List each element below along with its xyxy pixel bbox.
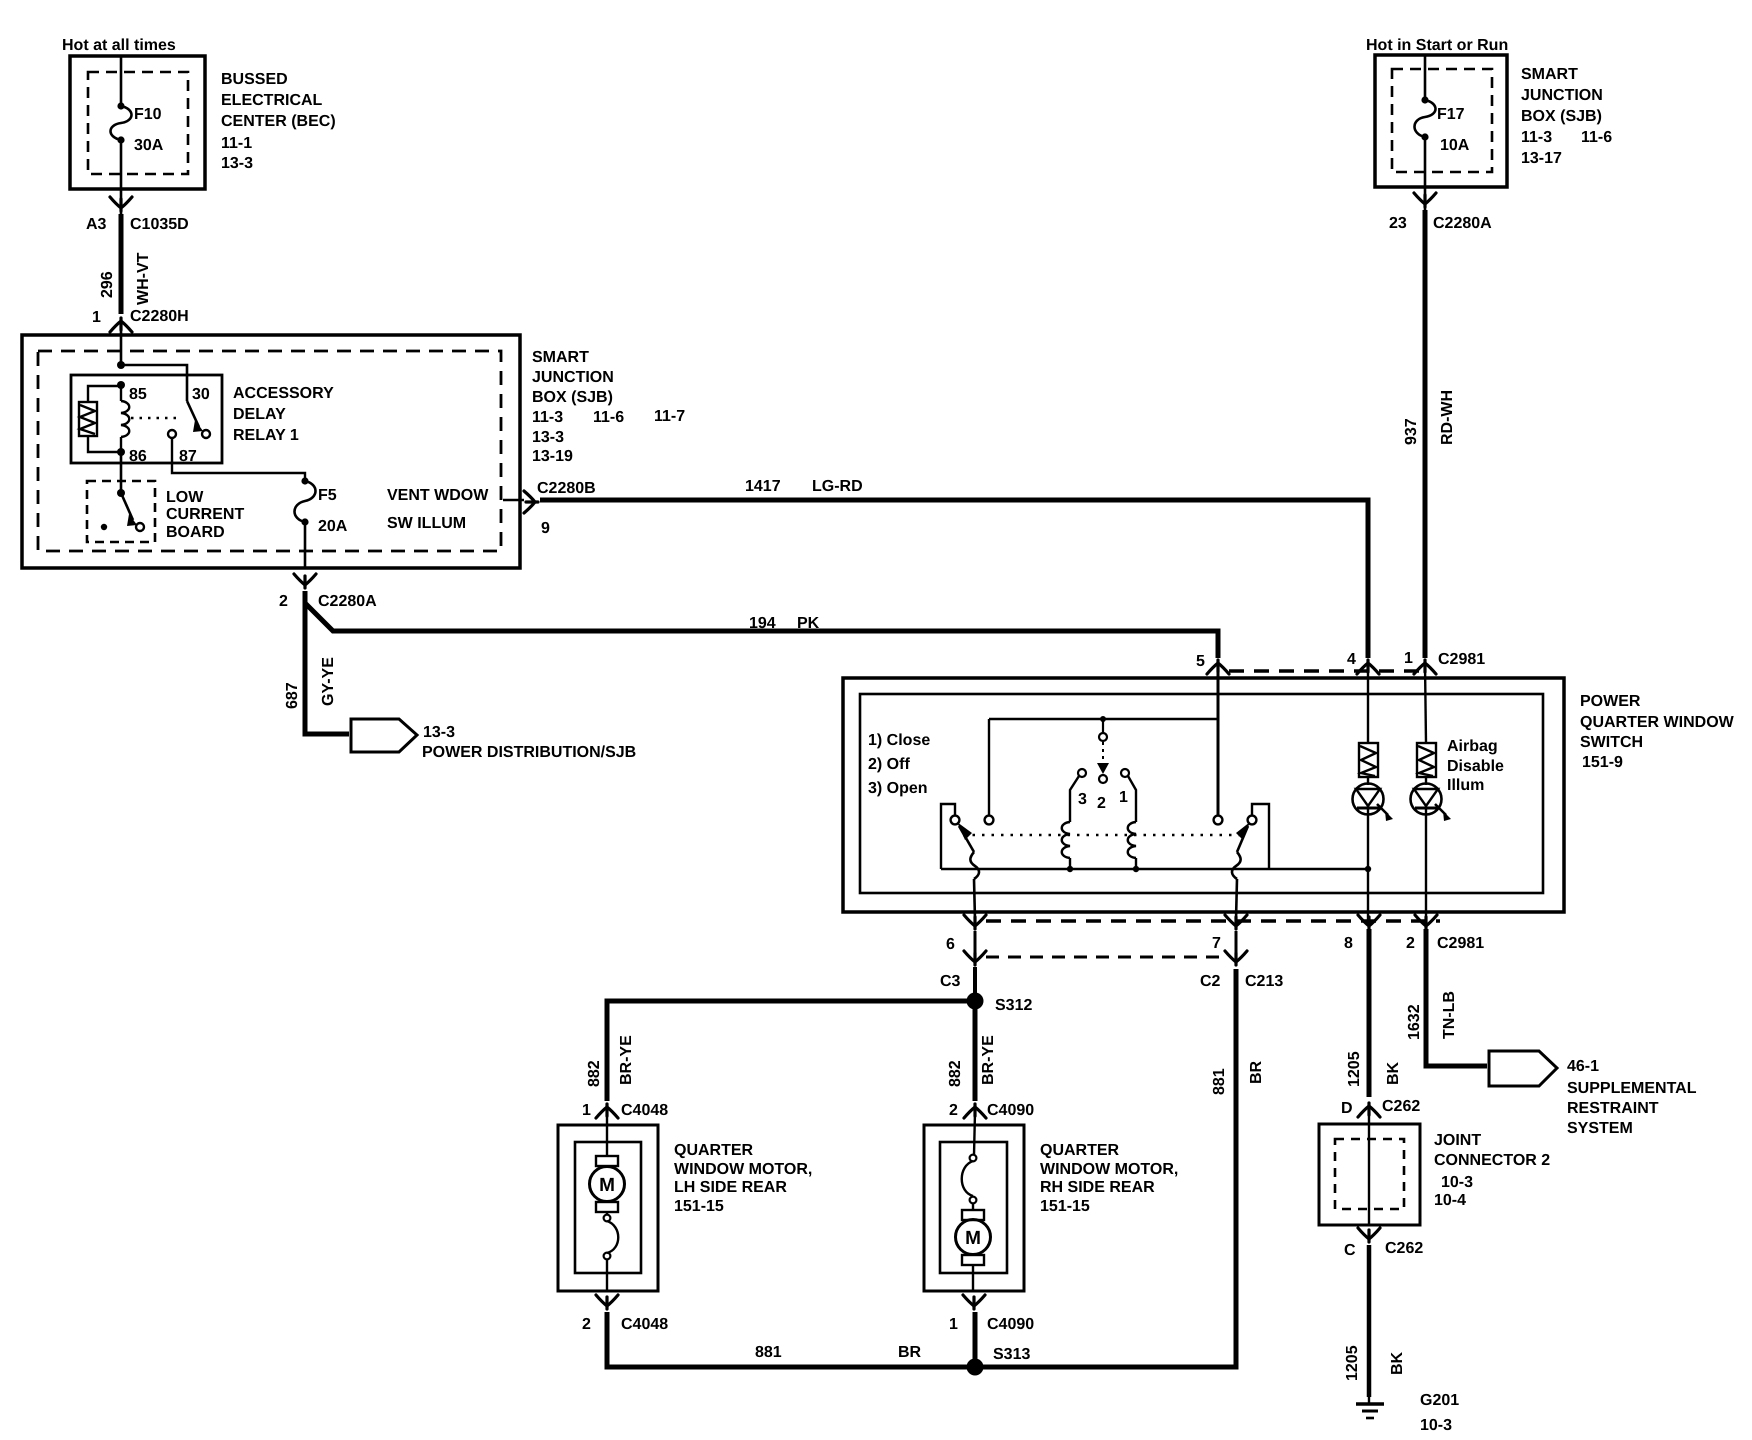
fuse F10 30A bbox=[111, 106, 132, 140]
switch common rail bbox=[941, 868, 1368, 871]
connector C2981 pin 5 bbox=[1207, 660, 1229, 674]
svg-text:C2280A: C2280A bbox=[1433, 215, 1492, 232]
svg-text:3: 3 bbox=[1078, 791, 1087, 808]
low current board (dashed) bbox=[87, 481, 155, 542]
svg-text:RH SIDE REAR: RH SIDE REAR bbox=[1040, 1179, 1155, 1196]
svg-text:2: 2 bbox=[1406, 935, 1415, 952]
wire 882 BR-YE (right) bbox=[973, 1001, 978, 1101]
node: pin 85 bbox=[117, 381, 125, 389]
svg-text:SMART: SMART bbox=[532, 349, 589, 366]
svg-text:882: 882 bbox=[586, 1060, 603, 1087]
svg-text:1: 1 bbox=[92, 309, 101, 326]
svg-text:JOINT: JOINT bbox=[1434, 1132, 1481, 1149]
svg-text:F10: F10 bbox=[134, 106, 162, 123]
connector C2280H pin 1 bbox=[110, 318, 132, 332]
node: coil-rail junctions bbox=[1067, 866, 1073, 872]
fuse box: Smart Junction Box (SJB) right bbox=[1375, 55, 1507, 187]
svg-text:QUARTER: QUARTER bbox=[674, 1142, 754, 1159]
right rocker blade bbox=[1237, 826, 1248, 852]
relay coil 85-86 bbox=[121, 385, 129, 452]
wire: C3 to splice S312 bbox=[973, 967, 977, 1001]
svg-text:SUPPLEMENTAL: SUPPLEMENTAL bbox=[1567, 1080, 1697, 1097]
svg-text:F5: F5 bbox=[318, 487, 337, 504]
svg-text:1) Close: 1) Close bbox=[868, 732, 930, 749]
label: QUARTER WINDOW MOTOR, LH SIDE REAR 151-15 bbox=[674, 1142, 812, 1215]
wire: pin 6 between connectors bbox=[974, 931, 977, 955]
connector C4090 pin 1 bbox=[963, 1295, 985, 1309]
svg-text:RD-WH: RD-WH bbox=[1439, 390, 1456, 445]
wire: C4090 to S313 bbox=[973, 1312, 978, 1367]
svg-text:11-1: 11-1 bbox=[221, 135, 252, 152]
svg-text:D: D bbox=[1341, 1100, 1353, 1117]
svg-text:13-3: 13-3 bbox=[221, 155, 253, 172]
svg-text:9: 9 bbox=[541, 520, 550, 537]
svg-text:2) Off: 2) Off bbox=[868, 756, 910, 773]
wire: fuse to box bottom bbox=[120, 140, 123, 189]
svg-text:S312: S312 bbox=[995, 997, 1032, 1014]
relay contact blade 30 bbox=[187, 401, 199, 427]
svg-text:ACCESSORY: ACCESSORY bbox=[233, 385, 334, 402]
svg-text:C4090: C4090 bbox=[987, 1102, 1034, 1119]
wire: lamp 1 to pin 8 bbox=[1367, 808, 1369, 920]
connector C2981 top (dashed) bbox=[1229, 669, 1419, 672]
svg-text:QUARTER WINDOW: QUARTER WINDOW bbox=[1580, 714, 1735, 731]
off-page connector 46-1 SUPPLEMENTAL RESTRAINT SYSTEM bbox=[1489, 1051, 1557, 1086]
svg-text:20A: 20A bbox=[318, 518, 348, 535]
label: POWER QUARTER WINDOW SWITCH 151-9 bbox=[1580, 693, 1735, 771]
connector C4090 pin 2 bbox=[964, 1104, 986, 1118]
node: center stub junction bbox=[1100, 716, 1106, 722]
wire: BEC internal feed bbox=[120, 56, 123, 106]
svg-text:BK: BK bbox=[1389, 1351, 1406, 1375]
svg-text:882: 882 bbox=[947, 1060, 964, 1087]
ground G201 bbox=[1356, 1397, 1384, 1418]
box: Smart Junction Box (SJB) bbox=[22, 335, 520, 568]
motor: Quarter Window Motor RH Side Rear bbox=[924, 1125, 1024, 1291]
svg-text:C2280A: C2280A bbox=[318, 593, 377, 610]
svg-text:5: 5 bbox=[1196, 653, 1205, 670]
wire 1205 BK (upper) bbox=[1367, 929, 1372, 1097]
svg-text:2: 2 bbox=[1097, 795, 1106, 812]
connector C2981 pin 2 bbox=[1415, 915, 1437, 929]
switch internal top wire bbox=[989, 718, 1218, 720]
connector C2280B pin 9 bbox=[503, 499, 524, 501]
svg-text:WINDOW MOTOR,: WINDOW MOTOR, bbox=[1040, 1161, 1178, 1178]
wire 881 BR (bottom) bbox=[607, 969, 1236, 1367]
splice S313 bbox=[967, 1359, 984, 1376]
off-page connector 13-3 POWER DISTRIBUTION/SJB bbox=[351, 719, 417, 752]
svg-text:1: 1 bbox=[1404, 650, 1413, 667]
connector C262 pin C bbox=[1358, 1228, 1380, 1242]
wire 194 PK bbox=[305, 603, 1218, 658]
svg-text:C262: C262 bbox=[1382, 1098, 1420, 1115]
rocker linkage (dotted) bbox=[963, 834, 1243, 837]
svg-text:C2280H: C2280H bbox=[130, 308, 189, 325]
connector C2981 pin 1 bbox=[1414, 660, 1436, 674]
wire: pin 4 to illum resistor bbox=[1367, 664, 1369, 743]
svg-text:BR-YE: BR-YE bbox=[618, 1035, 635, 1085]
RH motor armature bbox=[956, 1210, 991, 1265]
svg-text:2: 2 bbox=[279, 593, 288, 610]
svg-text:86: 86 bbox=[129, 448, 147, 465]
svg-text:1417: 1417 bbox=[745, 478, 781, 495]
svg-text:LOW: LOW bbox=[166, 489, 204, 506]
svg-text:30: 30 bbox=[192, 386, 210, 403]
coil (open) bbox=[1128, 822, 1136, 858]
connector C2280A pin 2 bbox=[294, 574, 316, 588]
wire 1632 TN-LB bbox=[1426, 929, 1487, 1066]
svg-text:85: 85 bbox=[129, 386, 147, 403]
svg-text:7: 7 bbox=[1212, 935, 1221, 952]
svg-text:C: C bbox=[1344, 1242, 1356, 1259]
svg-text:PK: PK bbox=[797, 615, 820, 632]
box: Power Quarter Window Switch bbox=[843, 678, 1564, 912]
node: relay feed junction bbox=[117, 361, 125, 369]
svg-text:GY-YE: GY-YE bbox=[320, 657, 337, 706]
illumination lamp 2 bbox=[1425, 777, 1427, 785]
svg-text:Hot at all times: Hot at all times bbox=[62, 37, 176, 54]
svg-text:11-6: 11-6 bbox=[593, 409, 624, 426]
label: QUARTER WINDOW MOTOR, RH SIDE REAR 151-15 bbox=[1040, 1142, 1178, 1215]
svg-text:881: 881 bbox=[755, 1344, 782, 1361]
svg-text:CURRENT: CURRENT bbox=[166, 506, 244, 523]
svg-text:11-6: 11-6 bbox=[1581, 129, 1612, 146]
wire: F17 feed bbox=[1424, 55, 1427, 100]
wire: to left stationary contact bbox=[988, 719, 990, 816]
svg-text:2: 2 bbox=[582, 1316, 591, 1333]
svg-text:BOARD: BOARD bbox=[166, 524, 225, 541]
svg-text:BUSSED: BUSSED bbox=[221, 71, 288, 88]
right rocker bracket bbox=[1252, 804, 1269, 869]
svg-text:C4048: C4048 bbox=[621, 1316, 668, 1333]
rotary selector center bbox=[1102, 719, 1104, 733]
fuse box: Bussed Electrical Center (BEC) bbox=[70, 56, 205, 189]
svg-text:4: 4 bbox=[1347, 651, 1356, 668]
wire: pin 5 into switch bbox=[1217, 664, 1220, 816]
svg-text:DELAY: DELAY bbox=[233, 406, 286, 423]
label: ACCESSORY DELAY RELAY 1 bbox=[233, 385, 334, 444]
svg-text:11-7: 11-7 bbox=[654, 408, 685, 425]
svg-text:M: M bbox=[599, 1175, 615, 1196]
svg-text:3) Open: 3) Open bbox=[868, 780, 928, 797]
svg-text:ELECTRICAL: ELECTRICAL bbox=[221, 92, 323, 109]
selector contact 3 bbox=[1078, 769, 1086, 777]
wire 296 WH-VT bbox=[119, 214, 124, 314]
svg-text:11-3: 11-3 bbox=[1521, 129, 1552, 146]
svg-text:BR-YE: BR-YE bbox=[980, 1035, 997, 1085]
svg-text:10-3: 10-3 bbox=[1441, 1174, 1473, 1191]
svg-text:RELAY 1: RELAY 1 bbox=[233, 427, 299, 444]
svg-text:Hot in Start or Run: Hot in Start or Run bbox=[1366, 37, 1508, 54]
svg-text:13-3: 13-3 bbox=[423, 724, 455, 741]
svg-text:2: 2 bbox=[949, 1102, 958, 1119]
left rocker bracket bbox=[941, 804, 955, 869]
svg-text:SW ILLUM: SW ILLUM bbox=[387, 515, 466, 532]
svg-text:194: 194 bbox=[749, 615, 776, 632]
svg-text:C4048: C4048 bbox=[621, 1102, 668, 1119]
svg-text:87: 87 bbox=[179, 448, 197, 465]
svg-text:10A: 10A bbox=[1440, 137, 1470, 154]
svg-text:Disable: Disable bbox=[1447, 758, 1504, 775]
svg-text:S313: S313 bbox=[993, 1346, 1030, 1363]
connector C2981 pin 7 bbox=[1225, 915, 1247, 929]
connector C2280A pin 23 bbox=[1414, 193, 1436, 207]
svg-text:BR: BR bbox=[1248, 1060, 1265, 1084]
connector C2981 pin 8 bbox=[1358, 915, 1380, 929]
svg-text:1: 1 bbox=[949, 1316, 958, 1333]
svg-text:JUNCTION: JUNCTION bbox=[1521, 87, 1603, 104]
svg-text:Illum: Illum bbox=[1447, 777, 1484, 794]
svg-text:C2280B: C2280B bbox=[537, 480, 596, 497]
connector C213 (dashed) bbox=[986, 956, 1227, 959]
svg-text:C4090: C4090 bbox=[987, 1316, 1034, 1333]
wire 687 GY-YE bbox=[305, 591, 349, 734]
relay resistor (parallel with coil) bbox=[79, 386, 121, 452]
fuse F17 10A bbox=[1415, 100, 1436, 137]
wire 1205 BK (lower) bbox=[1367, 1245, 1372, 1397]
wire 1417 LG-RD bbox=[540, 500, 1368, 658]
connector C2981 pin 6 bbox=[964, 915, 986, 929]
svg-text:SYSTEM: SYSTEM bbox=[1567, 1120, 1633, 1137]
left stationary contact bbox=[985, 816, 994, 825]
label: Airbag Disable Illum bbox=[1447, 738, 1504, 794]
joint connector 2 bbox=[1319, 1124, 1420, 1225]
coil (close) bbox=[1062, 822, 1070, 858]
illumination resistor 2 bbox=[1417, 743, 1436, 777]
svg-text:151-15: 151-15 bbox=[674, 1198, 724, 1215]
svg-text:937: 937 bbox=[1403, 418, 1420, 445]
wire: box to connector bbox=[1424, 187, 1427, 212]
svg-text:13-19: 13-19 bbox=[532, 448, 573, 465]
svg-text:151-9: 151-9 bbox=[1582, 754, 1623, 771]
svg-text:13-17: 13-17 bbox=[1521, 150, 1562, 167]
svg-text:RESTRAINT: RESTRAINT bbox=[1567, 1100, 1659, 1117]
svg-text:POWER: POWER bbox=[1580, 693, 1641, 710]
fuse F5 20A bbox=[295, 481, 316, 522]
svg-text:CENTER (BEC): CENTER (BEC) bbox=[221, 113, 336, 130]
connector C4048 pin 1 bbox=[596, 1104, 618, 1118]
svg-text:151-15: 151-15 bbox=[1040, 1198, 1090, 1215]
svg-text:8: 8 bbox=[1344, 935, 1353, 952]
illumination lamp 1 bbox=[1367, 777, 1369, 785]
wire: pin 7 between connectors bbox=[1235, 931, 1238, 955]
svg-text:46-1: 46-1 bbox=[1567, 1058, 1599, 1075]
svg-text:C2: C2 bbox=[1200, 973, 1221, 990]
illumination resistor 1 bbox=[1359, 743, 1378, 777]
svg-text:11-3: 11-3 bbox=[532, 409, 563, 426]
svg-text:1632: 1632 bbox=[1406, 1004, 1423, 1040]
svg-text:13-3: 13-3 bbox=[532, 429, 564, 446]
selector contact 1 bbox=[1121, 769, 1129, 777]
svg-text:296: 296 bbox=[99, 271, 116, 298]
low current board switch bbox=[117, 489, 125, 497]
node: pin 86 bbox=[117, 448, 125, 456]
svg-text:WINDOW MOTOR,: WINDOW MOTOR, bbox=[674, 1161, 812, 1178]
connector C1035D pin A3 bbox=[110, 197, 132, 211]
label: SMART JUNCTION BOX (SJB) 11-3 11-6 13-17 bbox=[1521, 66, 1612, 167]
svg-text:TN-LB: TN-LB bbox=[1441, 991, 1458, 1039]
svg-text:687: 687 bbox=[284, 682, 301, 709]
svg-text:CONNECTOR 2: CONNECTOR 2 bbox=[1434, 1152, 1550, 1169]
svg-text:10-3: 10-3 bbox=[1420, 1417, 1452, 1434]
svg-text:BOX (SJB): BOX (SJB) bbox=[1521, 108, 1602, 125]
svg-text:1: 1 bbox=[582, 1102, 591, 1119]
connector C2981 bottom (dashed) bbox=[986, 919, 1440, 923]
label: LOW CURRENT BOARD bbox=[166, 489, 244, 541]
wire: F5 to SJB edge bbox=[304, 522, 307, 568]
svg-text:881: 881 bbox=[1211, 1068, 1228, 1095]
connector C213 pin C2 bbox=[1225, 951, 1247, 965]
wire: BEC to connector bbox=[120, 189, 123, 222]
wire 937 RD-WH bbox=[1423, 210, 1428, 658]
svg-text:10-4: 10-4 bbox=[1434, 1192, 1466, 1209]
relay linkage (dotted) bbox=[131, 417, 182, 420]
svg-text:WH-VT: WH-VT bbox=[135, 252, 152, 305]
svg-text:LG-RD: LG-RD bbox=[812, 478, 863, 495]
svg-text:C2981: C2981 bbox=[1438, 651, 1485, 668]
svg-text:C213: C213 bbox=[1245, 973, 1283, 990]
svg-text:SWITCH: SWITCH bbox=[1580, 734, 1643, 751]
left rocker blade bbox=[959, 826, 974, 852]
splice S312 bbox=[967, 993, 984, 1010]
svg-text:VENT WDOW: VENT WDOW bbox=[387, 487, 489, 504]
svg-text:C3: C3 bbox=[940, 973, 961, 990]
svg-text:BR: BR bbox=[898, 1344, 922, 1361]
svg-text:A3: A3 bbox=[86, 216, 107, 233]
svg-text:SMART: SMART bbox=[1521, 66, 1578, 83]
motor: Quarter Window Motor LH Side Rear bbox=[558, 1125, 658, 1291]
svg-text:1205: 1205 bbox=[1346, 1051, 1363, 1087]
svg-text:30A: 30A bbox=[134, 137, 164, 154]
svg-text:C1035D: C1035D bbox=[130, 216, 189, 233]
switch legend 1) Close 2) Off 3) Open bbox=[868, 732, 930, 797]
svg-text:Airbag: Airbag bbox=[1447, 738, 1498, 755]
relay: Accessory Delay Relay 1 bbox=[71, 375, 222, 463]
wire into joint connector bbox=[1368, 1111, 1370, 1225]
svg-text:JUNCTION: JUNCTION bbox=[532, 369, 614, 386]
label: BUSSED ELECTRICAL CENTER (BEC) 11-1 13-3 bbox=[221, 71, 336, 172]
svg-text:POWER DISTRIBUTION/SJB: POWER DISTRIBUTION/SJB bbox=[422, 744, 636, 761]
label: JOINT CONNECTOR 2 10-3 10-4 bbox=[1434, 1132, 1550, 1209]
wire 882 BR-YE (left) bbox=[607, 1001, 975, 1101]
svg-text:G201: G201 bbox=[1420, 1392, 1459, 1409]
relay contact terminal bbox=[202, 430, 210, 438]
relay pin 87 terminal bbox=[168, 430, 176, 438]
svg-text:BOX (SJB): BOX (SJB) bbox=[532, 389, 613, 406]
svg-text:23: 23 bbox=[1389, 215, 1407, 232]
connector C213 pin C3 bbox=[964, 951, 986, 965]
wire into LH motor bbox=[606, 1112, 608, 1157]
wire: junction to contact 30 bbox=[121, 365, 187, 401]
svg-text:LH SIDE REAR: LH SIDE REAR bbox=[674, 1179, 787, 1196]
svg-text:6: 6 bbox=[946, 936, 955, 953]
svg-text:BK: BK bbox=[1385, 1061, 1402, 1085]
wire: connector into SJB bbox=[120, 318, 123, 365]
RH motor breaker bbox=[970, 1155, 977, 1162]
connector C2981 pin 4 bbox=[1357, 660, 1379, 674]
svg-text:C2981: C2981 bbox=[1437, 935, 1484, 952]
svg-text:M: M bbox=[965, 1228, 981, 1249]
wire into RH motor bbox=[974, 1112, 975, 1155]
svg-text:1205: 1205 bbox=[1344, 1345, 1361, 1381]
connector C262 pin D bbox=[1358, 1103, 1380, 1117]
svg-text:C262: C262 bbox=[1385, 1240, 1423, 1257]
LH motor breaker bbox=[606, 1212, 608, 1214]
wire: lamp 2 to pin 2 bbox=[1425, 808, 1427, 920]
right stationary contact bbox=[1214, 816, 1223, 825]
connector C4048 pin 2 bbox=[596, 1295, 618, 1309]
wire: pin 86 into low current board bbox=[120, 452, 123, 493]
svg-text:QUARTER: QUARTER bbox=[1040, 1142, 1120, 1159]
svg-text:1: 1 bbox=[1119, 789, 1128, 806]
wire: pin 87 to fuse F5 bbox=[172, 438, 305, 481]
svg-text:F17: F17 bbox=[1437, 106, 1465, 123]
label: SMART JUNCTION BOX (SJB) bbox=[532, 349, 685, 465]
wire: pin 1 to illum resistor 2 bbox=[1425, 664, 1426, 743]
